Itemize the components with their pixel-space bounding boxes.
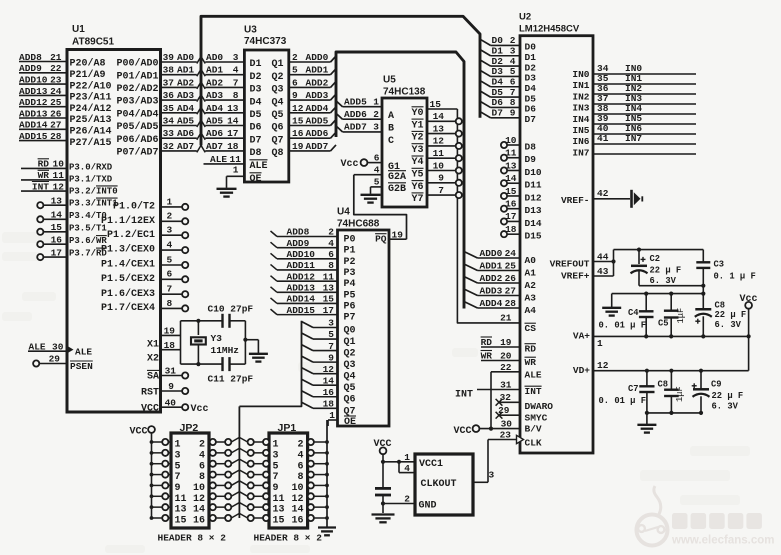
wire RD net - U2 pin 19 (481, 337, 537, 355)
svg-text:14: 14 (433, 111, 445, 122)
svg-text:Q6: Q6 (344, 395, 356, 406)
svg-text:11MHz: 11MHz (211, 345, 240, 356)
svg-text:B: B (388, 124, 394, 135)
svg-text:G2B: G2B (388, 184, 406, 195)
svg-text:IN0: IN0 (572, 69, 589, 80)
svg-text:22: 22 (50, 63, 62, 74)
svg-text:8: 8 (297, 472, 303, 483)
svg-text:7: 7 (167, 284, 173, 295)
svg-text:3: 3 (373, 122, 379, 133)
svg-text:15: 15 (51, 222, 63, 233)
svg-text:D7: D7 (250, 135, 262, 146)
wire U1 pin 3 P1 port open stub (107, 225, 188, 241)
svg-text:3: 3 (510, 46, 516, 57)
wire U4 Q3 pin 9 to Q bus (302, 352, 356, 371)
svg-text:19: 19 (164, 326, 176, 337)
svg-text:D1: D1 (492, 46, 504, 57)
svg-text:9: 9 (438, 173, 444, 184)
wire ADD3 (U3 pin 9 to ADD bus) (289, 90, 336, 101)
svg-text:2: 2 (292, 52, 298, 63)
svg-text:D2: D2 (250, 72, 262, 83)
svg-text:12: 12 (193, 494, 205, 505)
wire JP2 pin 7 to VCC bus (152, 471, 172, 477)
capacitor C4 0.01uF (599, 294, 654, 337)
svg-text:ADD8: ADD8 (19, 52, 42, 63)
svg-text:A: A (388, 111, 394, 122)
svg-text:16: 16 (51, 234, 63, 245)
svg-text:31: 31 (165, 366, 177, 377)
svg-text:15: 15 (323, 294, 335, 305)
wire crystal cap common to ground (243, 338, 258, 353)
svg-text:9: 9 (328, 352, 334, 363)
wire U1 pin 6 P1 port open stub (101, 269, 188, 285)
svg-text:Q0: Q0 (344, 326, 356, 337)
svg-text:ADD12: ADD12 (287, 271, 316, 282)
svg-text:6: 6 (167, 269, 173, 280)
svg-text:P3.2/INT0: P3.2/INT0 (69, 186, 118, 196)
wire D0 branch to U2 pin 2 (480, 35, 536, 53)
svg-text:10: 10 (193, 483, 205, 494)
svg-text:2: 2 (404, 494, 410, 505)
svg-text:3: 3 (273, 450, 279, 461)
svg-text:P1.2/EC1: P1.2/EC1 (107, 229, 155, 241)
wire jumper row 8 between JP2 pin 16 and JP1 pin 15 (209, 513, 269, 521)
wire U2 pin 11 D9 open stub (501, 148, 536, 166)
svg-text:D2: D2 (492, 56, 504, 67)
svg-text:IN7: IN7 (625, 133, 642, 144)
wire ADD15 net - U1 pin 28 (19, 131, 112, 149)
wire D5 branch to U2 pin 7 (480, 87, 536, 105)
svg-text:Vcc: Vcc (341, 159, 359, 170)
svg-text:9: 9 (168, 381, 174, 392)
svg-text:P1.4/CEX1: P1.4/CEX1 (101, 259, 155, 271)
svg-text:A4: A4 (525, 305, 537, 316)
svg-text:D8: D8 (525, 142, 537, 153)
wire U4 Q7 pin 18 to Q bus (302, 398, 356, 417)
svg-text:ADD13: ADD13 (19, 86, 48, 97)
wire ADD5 branch to U5 pin 1 (336, 97, 382, 108)
svg-text:P06/AD6: P06/AD6 (116, 134, 158, 146)
wire ADD13 net - U4 pin 13 P5 (271, 283, 356, 302)
svg-text:P20/A8: P20/A8 (70, 58, 106, 70)
svg-text:Q3: Q3 (272, 85, 284, 96)
svg-text:20: 20 (500, 350, 512, 361)
svg-text:IN1: IN1 (572, 80, 589, 91)
svg-text:ALE: ALE (29, 342, 46, 353)
wire EA - U1 pin 31 open stub (147, 366, 188, 383)
svg-text:28: 28 (50, 131, 62, 142)
svg-text:10: 10 (505, 135, 517, 146)
wire AD5 (U1 pin 34 to U3 pin 14) (116, 116, 283, 134)
svg-text:4: 4 (199, 450, 205, 461)
wire U4 Q5 pin 14 to Q bus (302, 375, 356, 394)
svg-text:Y3: Y3 (211, 333, 223, 344)
svg-text:P01/AD1: P01/AD1 (116, 70, 158, 82)
svg-text:2: 2 (297, 440, 303, 451)
svg-text:RST: RST (141, 387, 159, 398)
node Vcc at U1 pin 40 (141, 397, 209, 415)
svg-text:WR: WR (481, 350, 493, 361)
svg-text:16: 16 (505, 199, 517, 210)
wire U5 Y5 pin 10 open stub (427, 160, 462, 173)
watermark elecfans logo (637, 486, 668, 546)
wire D4 branch to U2 pin 6 (480, 77, 536, 95)
svg-text:Y5: Y5 (412, 170, 424, 181)
svg-text:P1.3/CEX0: P1.3/CEX0 (101, 244, 155, 256)
svg-text:15: 15 (505, 186, 517, 197)
svg-text:PQ: PQ (375, 234, 387, 245)
svg-text:SA: SA (147, 372, 159, 383)
svg-text:Y3: Y3 (412, 145, 424, 156)
svg-text:11: 11 (323, 271, 335, 282)
svg-text:VD+: VD+ (573, 365, 590, 376)
svg-text:Y0: Y0 (412, 108, 424, 119)
svg-text:Q6: Q6 (272, 123, 284, 134)
wire ADD5 (U3 pin 15 to ADD bus) (289, 116, 336, 127)
svg-text:12: 12 (53, 181, 65, 192)
wire jumper row 2 between JP2 pin 4 and JP1 pin 3 (209, 448, 269, 456)
svg-text:AD1: AD1 (206, 65, 223, 76)
U5 Y0-Y7 output name labels (412, 107, 424, 205)
svg-text:AT89C51: AT89C51 (72, 37, 114, 48)
wire U2 DWARO pin 32 no-connect (496, 392, 554, 412)
wire jumper row 5 between JP2 pin 10 and JP1 pin 9 (209, 481, 269, 489)
svg-text:22: 22 (500, 362, 512, 373)
wire ADD1 (U3 pin 5 to ADD bus) (289, 65, 336, 76)
svg-text:6. 3V: 6. 3V (715, 320, 742, 330)
ground at VD+ decoupling rail (637, 425, 656, 433)
svg-text:16: 16 (193, 516, 205, 527)
wire D1 branch to U2 pin 3 (480, 46, 536, 64)
wire JP2 pin 5 to VCC bus (152, 461, 172, 467)
svg-text:36: 36 (163, 90, 175, 101)
wire ADD4 branch to U2 pin 28 A4 (464, 298, 536, 316)
svg-text:1: 1 (404, 452, 410, 463)
svg-text:VCC: VCC (130, 427, 148, 438)
svg-text:32: 32 (500, 392, 512, 403)
svg-text:AD2: AD2 (177, 77, 194, 88)
capacitor C2 22uF 6.3V electrolytic (631, 254, 682, 286)
svg-text:SMYC: SMYC (525, 413, 548, 424)
wire JP2 pin 11 to VCC bus (152, 493, 172, 499)
svg-text:AD7: AD7 (177, 141, 194, 152)
svg-text:4: 4 (510, 56, 516, 67)
svg-text:6: 6 (292, 77, 298, 88)
svg-text:D8: D8 (250, 148, 262, 159)
svg-text:AD5: AD5 (177, 116, 194, 127)
svg-text:P00/AD0: P00/AD0 (116, 58, 158, 70)
svg-text:6: 6 (199, 461, 205, 472)
svg-text:P07/AD7: P07/AD7 (116, 147, 158, 159)
svg-text:18: 18 (505, 224, 517, 235)
ground at oscillator (372, 515, 395, 523)
svg-text:INT: INT (32, 181, 49, 192)
svg-text:ADD5: ADD5 (306, 116, 329, 127)
wire U2 pin 10 D8 open stub (501, 135, 536, 153)
svg-text:A3: A3 (525, 293, 537, 304)
svg-text:INT: INT (525, 386, 542, 397)
svg-text:21: 21 (500, 313, 512, 324)
wire AD4 (U1 pin 35 to U3 pin 13) (116, 103, 283, 121)
svg-text:ADD8: ADD8 (287, 227, 310, 238)
svg-text:23: 23 (50, 75, 62, 86)
wire ADD13 net - U1 pin 24 (19, 86, 112, 104)
svg-text:43: 43 (597, 266, 609, 277)
svg-text:34: 34 (163, 116, 175, 127)
svg-text:8: 8 (167, 298, 173, 309)
svg-text:ADD6: ADD6 (344, 109, 367, 120)
svg-text:5: 5 (273, 461, 279, 472)
svg-text:74HC373: 74HC373 (244, 36, 287, 47)
wire jumper select column from U4 Q bus (238, 406, 240, 518)
svg-text:6: 6 (374, 152, 380, 163)
svg-text:5: 5 (175, 461, 181, 472)
svg-text:Vcc: Vcc (191, 404, 209, 415)
wire JP1 even pins to ground bus (308, 420, 329, 527)
svg-text:9: 9 (510, 108, 516, 119)
svg-text:D7: D7 (492, 108, 504, 119)
wire U4 Q4 pin 12 to Q bus (302, 364, 356, 383)
svg-text:ADD10: ADD10 (287, 249, 316, 260)
wire U1 pin 8 P1 port open stub (101, 298, 188, 314)
svg-text:3: 3 (175, 450, 181, 461)
svg-text:A0: A0 (525, 255, 537, 266)
svg-text:ADD7: ADD7 (344, 122, 367, 133)
svg-text:AD4: AD4 (177, 103, 194, 114)
wire ADD9 net - U4 pin 4 P1 (271, 238, 356, 257)
svg-text:11: 11 (230, 154, 242, 165)
oscillator module VCC1/CLKOUT body (415, 454, 473, 515)
svg-text:2: 2 (373, 109, 379, 120)
svg-text:ALE: ALE (210, 154, 227, 165)
wire INT net to U2 pin 31 (455, 379, 542, 400)
svg-text:D1: D1 (250, 59, 262, 70)
svg-text:Q1: Q1 (344, 337, 356, 348)
latch U3 74HC373 body (244, 25, 289, 183)
svg-text:13: 13 (51, 195, 63, 206)
svg-text:22 μ F: 22 μ F (712, 391, 744, 401)
capacitor C8 22uF 6.3V electrolytic (695, 294, 746, 337)
svg-text:Q5: Q5 (344, 383, 356, 394)
svg-text:14: 14 (193, 505, 205, 516)
svg-text:32: 32 (163, 141, 175, 152)
wire ADD11 net - U4 pin 8 P3 (271, 260, 356, 279)
svg-text:AD2: AD2 (206, 77, 223, 88)
svg-text:P7: P7 (344, 313, 356, 324)
svg-text:12: 12 (597, 360, 609, 371)
svg-text:P3.1/TXD: P3.1/TXD (69, 174, 113, 184)
svg-text:D2: D2 (525, 62, 537, 73)
svg-text:D14: D14 (525, 218, 542, 229)
svg-text:Y6: Y6 (412, 182, 424, 193)
svg-text:CLKOUT: CLKOUT (421, 479, 457, 490)
svg-text:C2: C2 (650, 254, 661, 264)
ground on analog rail (602, 308, 621, 316)
svg-text:ADD12: ADD12 (19, 97, 48, 108)
svg-text:ADD2: ADD2 (306, 77, 329, 88)
svg-text:P25/A13: P25/A13 (70, 114, 112, 126)
svg-text:U1: U1 (72, 24, 85, 35)
svg-text:6. 3V: 6. 3V (712, 401, 739, 411)
wire ADD12 net - U1 pin 25 (19, 97, 112, 115)
wire VD+ decoupling bottom rail (645, 411, 703, 424)
svg-text:4: 4 (167, 240, 173, 251)
wire U2 pin 16 D13 open stub (501, 199, 542, 217)
wire U2 pin 18 D15 open stub (501, 224, 542, 242)
svg-text:4: 4 (233, 65, 239, 76)
U2 analog inputs IN0-IN7 wires (572, 63, 696, 158)
wire U1 pin 13 open stub (37, 195, 67, 208)
svg-text:15: 15 (273, 516, 285, 527)
svg-text:8: 8 (510, 97, 516, 108)
svg-text:41: 41 (597, 133, 609, 144)
wire U5 Y4 pin 11 open stub (427, 148, 462, 161)
svg-text:D6: D6 (492, 97, 504, 108)
svg-text:13: 13 (323, 283, 335, 294)
svg-text:D6: D6 (250, 123, 262, 134)
svg-text:C4: C4 (628, 308, 639, 318)
wire ADD14 net - U1 pin 27 (19, 120, 112, 138)
wire JP2 pin 15 to VCC bus (152, 515, 172, 521)
wire ADD0 (U3 pin 2 to ADD bus) (289, 52, 336, 63)
IC U1 AT89C51 microcontroller body (67, 24, 161, 412)
node Vcc feeding VA+/VD+ (740, 294, 758, 371)
svg-text:12: 12 (433, 136, 445, 147)
svg-text:VA+: VA+ (573, 331, 590, 342)
svg-text:DWARO: DWARO (525, 401, 554, 412)
svg-text:ADD1: ADD1 (306, 65, 329, 76)
wire VD+ rail U2 pin 12 (573, 360, 749, 376)
svg-text:10: 10 (291, 483, 303, 494)
svg-text:5: 5 (328, 329, 334, 340)
svg-text:ADD15: ADD15 (287, 305, 316, 316)
svg-text:Y2: Y2 (412, 133, 424, 144)
svg-text:ADD0: ADD0 (480, 248, 503, 259)
svg-text:Q4: Q4 (344, 372, 356, 383)
svg-text:HEADER 8 × 2: HEADER 8 × 2 (158, 533, 227, 544)
svg-text:11: 11 (53, 170, 65, 181)
svg-text:P0: P0 (344, 235, 356, 246)
ground at JP1 bus (318, 528, 336, 536)
svg-text:VREF+: VREF+ (561, 271, 590, 282)
svg-text:16: 16 (291, 516, 303, 527)
svg-text:19: 19 (292, 141, 304, 152)
svg-text:0. 01 μ F: 0. 01 μ F (599, 321, 647, 331)
svg-text:5: 5 (374, 177, 380, 188)
svg-text:ADD2: ADD2 (480, 273, 503, 284)
svg-text:D3: D3 (250, 85, 262, 96)
wire U1 pin 2 P1 port open stub (101, 211, 188, 227)
svg-text:30: 30 (501, 419, 513, 430)
svg-text:26: 26 (505, 273, 517, 284)
wire ALE net - U1 pin 30 (28, 342, 92, 358)
svg-text:8: 8 (233, 90, 239, 101)
svg-text:JP2: JP2 (180, 422, 199, 434)
JP1 pin numbers (273, 440, 304, 527)
svg-text:74HC138: 74HC138 (383, 87, 426, 98)
svg-text:AD3: AD3 (177, 90, 194, 101)
svg-text:11: 11 (505, 148, 517, 159)
svg-text:IN2: IN2 (572, 91, 589, 102)
svg-text:U5: U5 (383, 75, 396, 86)
wire U1 pin 7 P1 port open stub (101, 284, 188, 300)
crystal Y3 11MHz (181, 319, 246, 367)
svg-text:A1: A1 (525, 268, 537, 279)
svg-text:2: 2 (328, 227, 334, 238)
svg-text:22 μ F: 22 μ F (715, 310, 747, 320)
svg-text:AD1: AD1 (177, 65, 194, 76)
svg-text:Q3: Q3 (344, 360, 356, 371)
svg-text:P26/A14: P26/A14 (70, 126, 112, 138)
wire VA+ rail U2 pin 1 (573, 331, 751, 350)
wire VREF+ rail to C2 C3 (614, 248, 706, 294)
svg-text:40: 40 (165, 397, 177, 408)
svg-text:ADD3: ADD3 (480, 285, 503, 296)
wire AD3 (U1 pin 36 to U3 pin 8) (116, 90, 283, 108)
wire U1 pin 15 open stub (37, 222, 67, 235)
wire ADD15 net - U4 pin 17 P7 (271, 305, 356, 324)
svg-text:P21/A9: P21/A9 (70, 69, 106, 81)
svg-text:4: 4 (328, 238, 334, 249)
wire X2 - U1 pin 18 (147, 340, 181, 365)
svg-text:14: 14 (291, 505, 303, 516)
wire U5 Y2 pin 13 open stub (427, 123, 462, 136)
svg-text:INT: INT (455, 390, 473, 401)
wire PSEN - U1 pin 29 open stub (33, 354, 93, 372)
wire CLK from oscillator to U2 pin 23 (488, 429, 542, 482)
svg-text:P1.7/CEX4: P1.7/CEX4 (101, 302, 155, 314)
svg-text:35: 35 (163, 103, 175, 114)
wire ADD8 net - U4 pin 2 P0 (271, 227, 356, 246)
svg-text:1μF: 1μF (675, 386, 685, 402)
svg-text:3: 3 (233, 52, 239, 63)
wire VREFOUT pin 44 / VREF+ pin 43 tie (550, 250, 616, 282)
svg-text:X1: X1 (147, 340, 159, 351)
wire AD6 (U1 pin 33 to U3 pin 17) (116, 128, 283, 146)
svg-text:5: 5 (292, 65, 298, 76)
wire U2 pin 14 D11 open stub (501, 173, 542, 191)
svg-text:ADD7: ADD7 (306, 141, 329, 152)
JP2 pin numbers (175, 440, 206, 527)
wire U5 G2B pin 5 to ground (371, 177, 383, 194)
svg-text:B/V: B/V (525, 424, 542, 435)
svg-text:RD: RD (481, 337, 493, 348)
svg-text:17: 17 (323, 305, 335, 316)
svg-text:33: 33 (163, 128, 175, 139)
wire oscillator GND pin 2 (381, 494, 415, 506)
svg-text:38: 38 (163, 65, 175, 76)
wire U5 Y3 pin 12 open stub (427, 136, 462, 149)
wire U4 Q6 pin 16 to Q bus (302, 387, 356, 406)
svg-text:15: 15 (430, 99, 442, 110)
svg-text:8: 8 (199, 472, 205, 483)
wire D7 branch to U2 pin 9 (480, 108, 536, 126)
wire ADD1 branch to U2 pin 25 A1 (464, 260, 536, 278)
wire U2 pin 15 D12 open stub (501, 186, 542, 204)
wire JP2 pin 3 to VCC bus (152, 450, 172, 456)
svg-text:P2: P2 (344, 257, 356, 268)
svg-text:17: 17 (51, 247, 63, 258)
svg-text:P5: P5 (344, 290, 356, 301)
ADC U2 LM12H458CV body (519, 12, 593, 454)
svg-text:28: 28 (505, 298, 517, 309)
svg-text:C10 27pF: C10 27pF (208, 304, 254, 315)
svg-text:P3.0/RXD: P3.0/RXD (69, 163, 113, 173)
svg-text:29: 29 (498, 405, 510, 416)
svg-text:42: 42 (597, 188, 609, 199)
svg-text:ALE: ALE (525, 370, 542, 381)
svg-text:RD: RD (525, 344, 537, 355)
